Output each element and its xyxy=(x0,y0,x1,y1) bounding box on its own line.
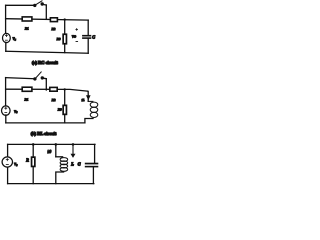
wire: (b) bottom rail xyxy=(6,122,85,124)
wire: (c) bottom rail xyxy=(8,183,94,185)
wire: down to R0 (b) xyxy=(64,89,66,104)
wire: down to R (c) xyxy=(32,144,34,156)
resistor R0 vertical (a) xyxy=(56,34,67,44)
capacitor C (a) xyxy=(82,34,95,39)
inductor L (b) xyxy=(85,101,98,123)
wire: cap bottom to bottom rail (c) xyxy=(92,167,94,183)
svg-text:C: C xyxy=(92,34,95,39)
resistor R1 (a) xyxy=(22,17,32,31)
wire: R0 bottom to bottom rail (b) xyxy=(64,115,66,123)
wire: (a) right rail upper xyxy=(87,20,89,35)
switch S2 xyxy=(33,72,46,81)
svg-text:vo: vo xyxy=(72,33,77,38)
node: top rail / R branch (c) xyxy=(32,143,35,146)
wire: down to R0 (a) xyxy=(64,20,66,34)
wire: (a) middle rail xyxy=(6,19,89,20)
resistor R2 (b) xyxy=(50,87,57,102)
wire: R bottom to bottom rail (c) xyxy=(32,167,34,183)
capacitor C (c) xyxy=(85,163,99,168)
wire: (a) left rail xyxy=(5,5,7,34)
wire: switch drop to middle rail (a) xyxy=(45,5,47,19)
wire: (a) bottom rail xyxy=(6,51,88,53)
wire: (c) left rail above source xyxy=(7,144,9,157)
node: junction middle rail / R0 branch (b) xyxy=(63,88,65,90)
wire: R0 bottom to bottom rail (a) xyxy=(64,45,66,53)
wire: (c) left rail below source xyxy=(7,167,9,183)
voltage source vs (c) xyxy=(2,157,17,167)
svg-text:R1: R1 xyxy=(24,27,29,31)
wire: (b) middle rail xyxy=(6,89,88,91)
wire: (a) top wire xyxy=(6,4,34,6)
svg-text:C: C xyxy=(78,161,81,166)
svg-text:s: s xyxy=(16,164,17,167)
wire: down to capacitor (c) xyxy=(94,144,96,162)
wire: (b) top wire xyxy=(6,78,34,79)
resistor R (c) xyxy=(25,157,35,166)
svg-text:(b) RL circuit: (b) RL circuit xyxy=(31,131,57,136)
resistor R2 (a) xyxy=(50,18,57,31)
inductor L (c) xyxy=(56,157,68,184)
node: top rail / arrow (c) xyxy=(72,143,75,146)
svg-text:s: s xyxy=(15,38,16,41)
svg-text:(a) RC circuit: (a) RC circuit xyxy=(32,60,58,65)
svg-text:R0: R0 xyxy=(57,107,62,111)
voltage source Vs (a) xyxy=(3,33,16,42)
label: + vo - output marking (a) xyxy=(72,29,78,42)
wire: source bottom to bottom rail (b) xyxy=(5,115,7,123)
current arrow iL (b) xyxy=(82,95,91,102)
svg-text:R2: R2 xyxy=(51,98,56,102)
current arrow (c) xyxy=(71,145,76,158)
svg-text:R0: R0 xyxy=(56,37,61,41)
svg-text:R2: R2 xyxy=(51,27,56,31)
resistor R1 (b) xyxy=(22,87,32,102)
switch S1 xyxy=(33,1,46,7)
resistor R0 vertical (b) xyxy=(57,105,67,114)
svg-text:R1: R1 xyxy=(24,98,29,102)
svg-text:i0: i0 xyxy=(48,149,52,154)
wire: (b) right rail upper xyxy=(87,91,89,101)
wire: down to L (c) xyxy=(55,144,57,156)
svg-text:iL: iL xyxy=(82,98,85,102)
wire: source bottom to bottom rail (a) xyxy=(5,42,7,51)
wire: (c) top rail xyxy=(8,143,95,145)
node: junction middle rail / R0 branch (a) xyxy=(63,18,65,20)
node: top rail / L branch (c) xyxy=(55,143,58,146)
wire: cap bottom to bottom rail (a) xyxy=(87,39,89,53)
voltage source Vs (b) xyxy=(2,106,18,115)
wire: switch drop to middle rail (b) xyxy=(45,79,47,90)
wire: (b) left rail xyxy=(5,78,7,107)
svg-text:L: L xyxy=(70,161,74,166)
svg-text:R: R xyxy=(25,158,29,163)
svg-text:s: s xyxy=(16,111,17,114)
